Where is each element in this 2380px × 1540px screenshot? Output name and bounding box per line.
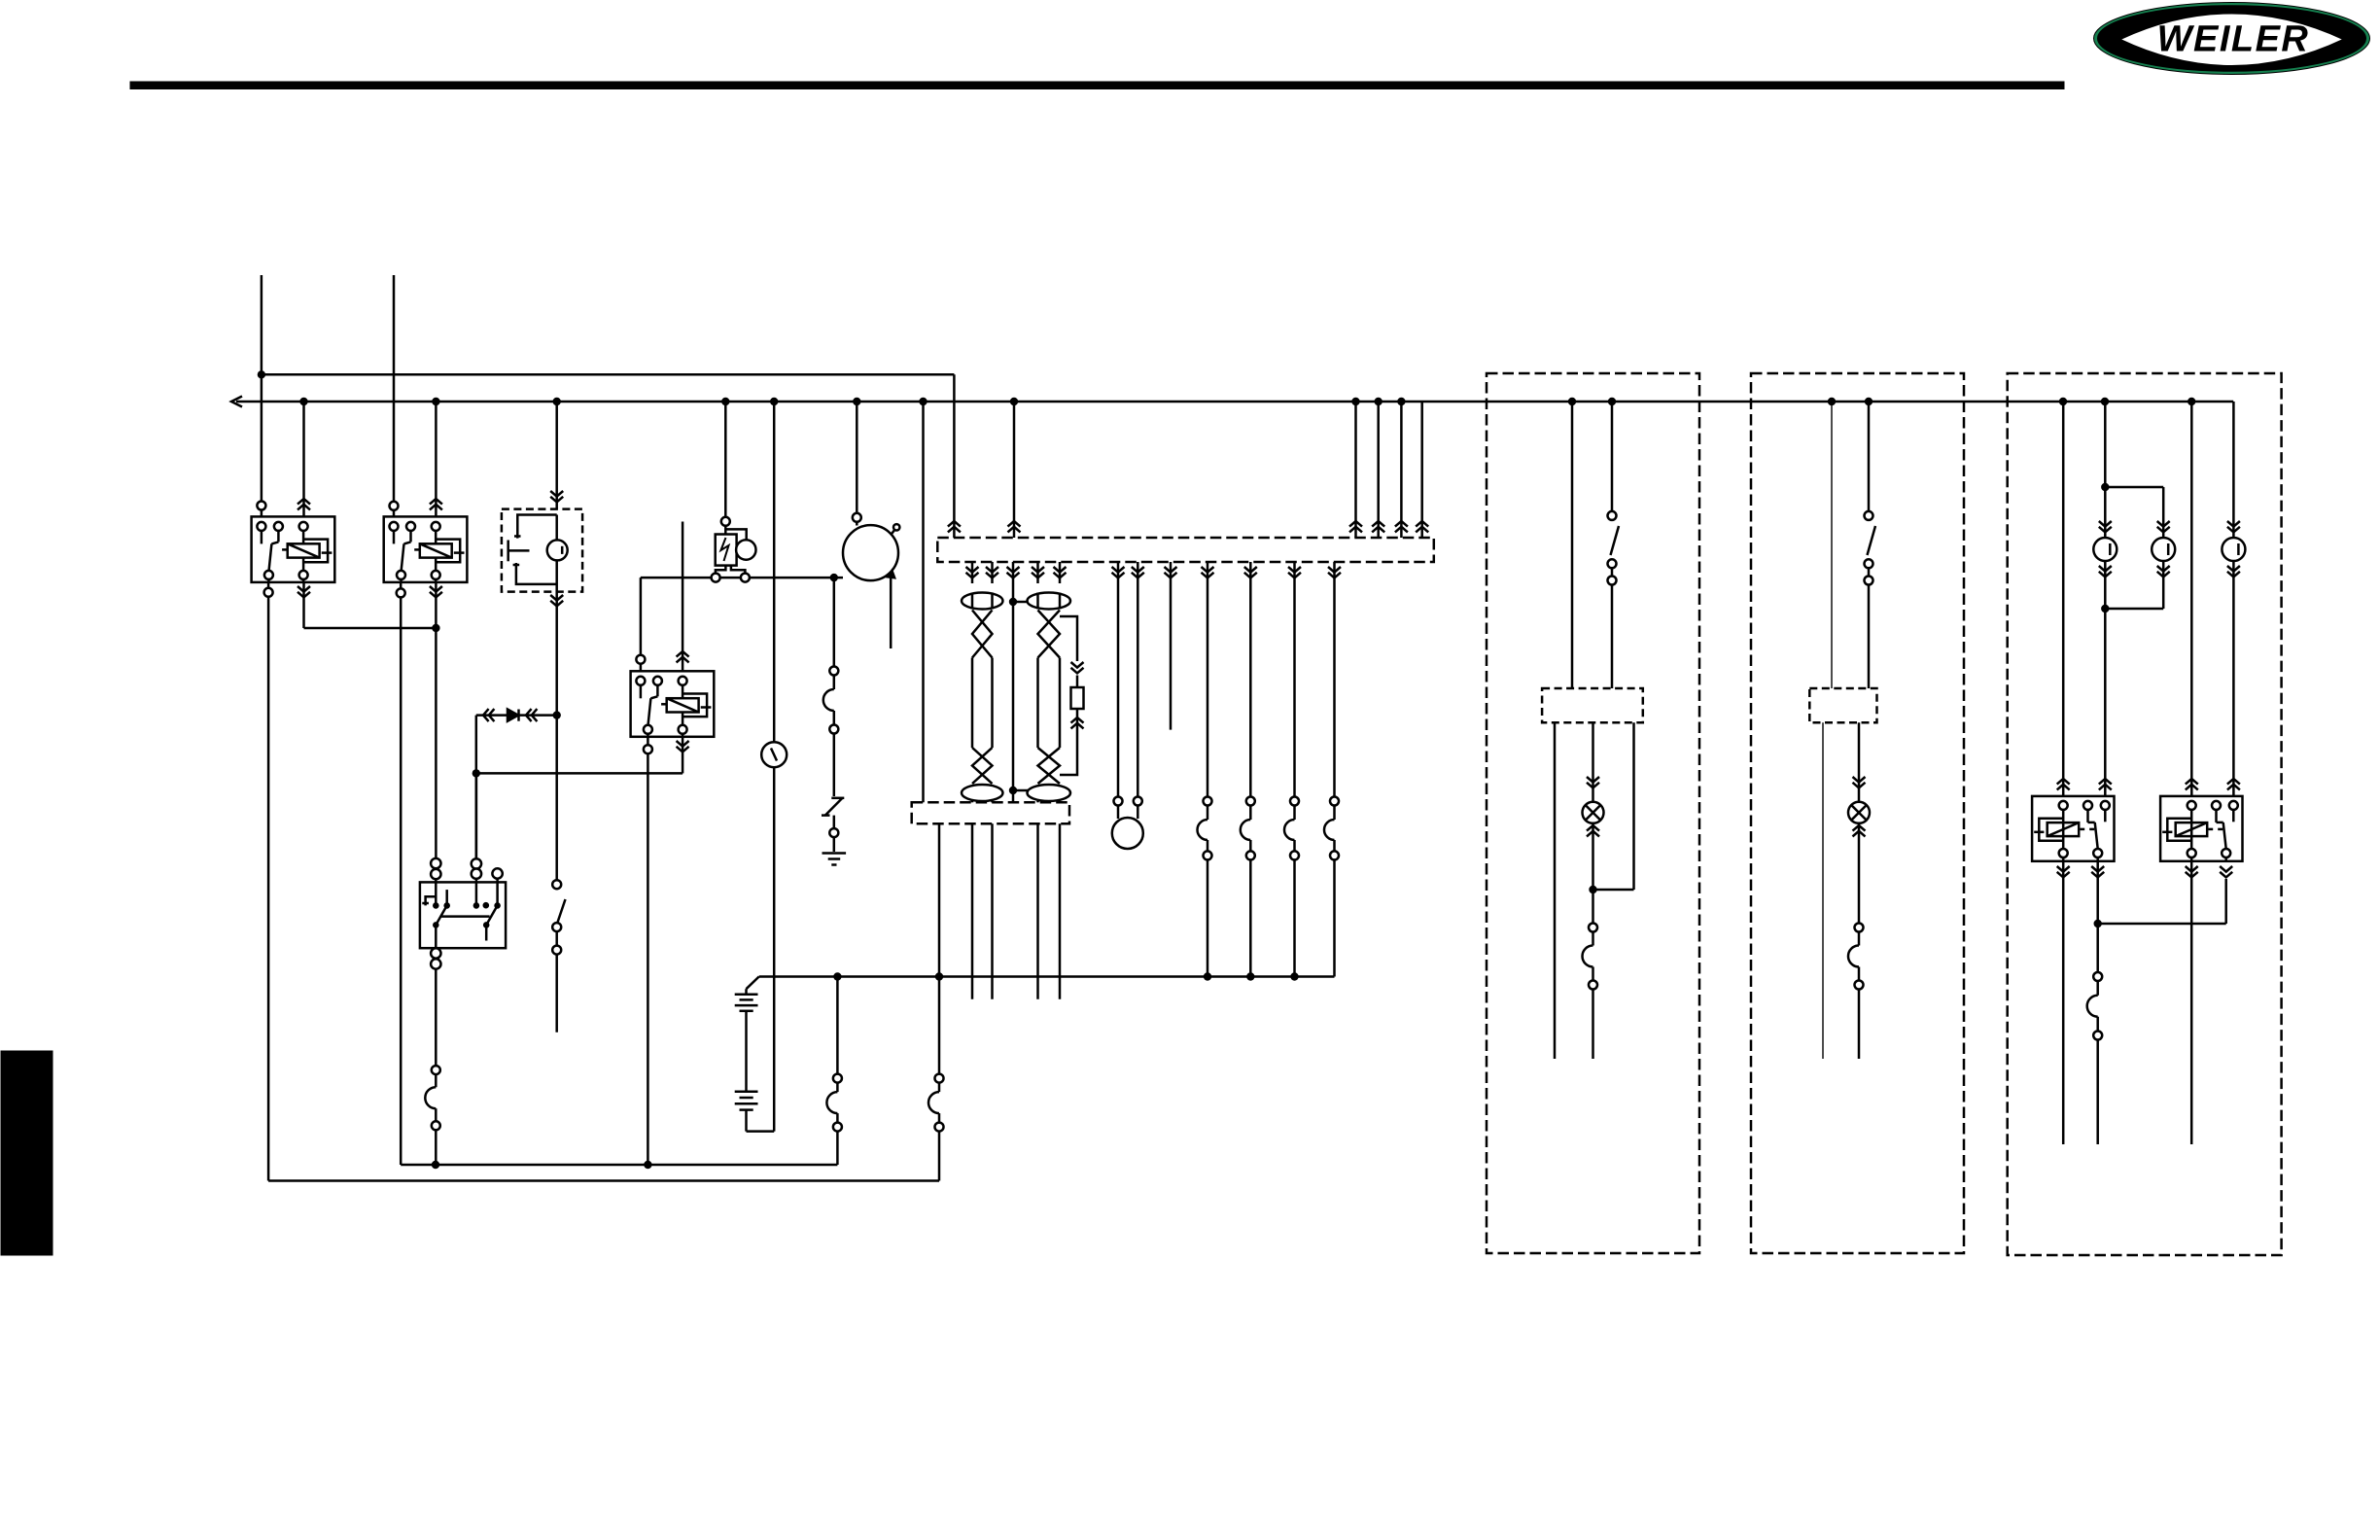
svg-text:WEILER: WEILER [2157,19,2310,60]
